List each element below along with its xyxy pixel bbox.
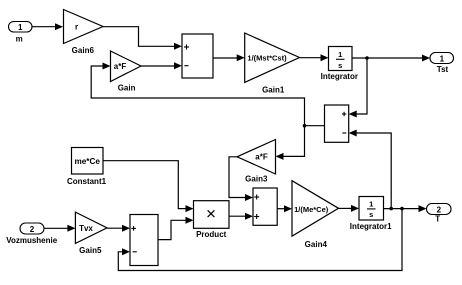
wire inport2 to Gain5 xyxy=(44,225,75,232)
sum block Sum4 xyxy=(130,215,158,266)
integrator Integrator (1/s) xyxy=(321,47,358,82)
svg-text:Gain5: Gain5 xyxy=(79,246,102,255)
svg-text:Gain3: Gain3 xyxy=(245,174,268,183)
svg-text:me*Ce: me*Ce xyxy=(74,157,100,166)
node junction after Integrator xyxy=(365,56,369,60)
svg-text:a*F: a*F xyxy=(255,153,268,162)
wire Gain4 to Integrator1 xyxy=(339,205,360,212)
wire feedback bottom to Sum4 minus xyxy=(118,209,402,271)
outport 2 (T) xyxy=(427,204,452,224)
integrator Integrator1 (1/s) xyxy=(350,197,392,232)
node junction after Integrator1 xyxy=(389,207,393,211)
node junction left of Sum2 xyxy=(303,124,307,128)
wire Sum2 output to junction xyxy=(305,125,325,127)
inport 1 (m) xyxy=(9,22,33,44)
wire Sum3 to Gain4 xyxy=(277,205,292,212)
wire junction up to Sum2 minus xyxy=(349,130,392,209)
wire Sum1 to Gain1 xyxy=(213,54,245,61)
inport 2 (Vozmushenie) xyxy=(6,223,58,245)
svg-text:r: r xyxy=(75,23,78,32)
wire junction down to Gain3 input xyxy=(276,126,305,160)
wire Gain3 output to Sum3 plus top xyxy=(229,157,253,201)
svg-text:Gain1: Gain1 xyxy=(262,85,285,94)
svg-text:1: 1 xyxy=(369,199,373,208)
svg-text:a*F: a*F xyxy=(114,62,127,71)
outport 1 (Tst) xyxy=(430,53,454,75)
gain Gain3 (a*F, points left) xyxy=(237,140,276,184)
node junction before outport T xyxy=(400,207,404,211)
svg-text:1: 1 xyxy=(18,23,23,32)
svg-text:s: s xyxy=(369,210,373,219)
svg-text:2: 2 xyxy=(30,225,35,234)
svg-text:1/(Me*Ce): 1/(Me*Ce) xyxy=(294,205,329,214)
wire Integrator to outport Tst xyxy=(352,55,430,62)
svg-text:T: T xyxy=(435,215,440,224)
svg-text:Tvx: Tvx xyxy=(79,224,93,233)
wire Product to Sum3 plus bottom xyxy=(229,213,253,220)
wire feedback into Gain input xyxy=(91,63,304,126)
sum block Sum2 xyxy=(325,105,349,142)
wire junction down to Sum2 plus xyxy=(349,58,367,118)
gain Gain6 xyxy=(64,10,104,56)
gain Gain1 (1/(Mst*Cst)) xyxy=(245,33,300,94)
gain Gain5 (Tvx) xyxy=(75,212,107,255)
svg-text:Tst: Tst xyxy=(437,65,449,74)
svg-text:Vozmushenie: Vozmushenie xyxy=(6,236,58,245)
wire inport1 to Gain6 xyxy=(32,23,63,30)
wire Constant1 to Product input 1 xyxy=(103,161,194,212)
wire Gain to Sum1 minus xyxy=(141,62,182,69)
gain Gain (a*F) xyxy=(111,51,142,93)
wire Gain1 to Integrator xyxy=(300,54,329,61)
wire Integrator1 to outport T xyxy=(384,205,427,212)
svg-text:Constant1: Constant1 xyxy=(67,177,107,186)
wire Gain5 to Sum4 plus xyxy=(107,225,130,232)
svg-text:1/(Mst*Cst): 1/(Mst*Cst) xyxy=(247,54,287,63)
svg-text:Integrator: Integrator xyxy=(321,72,358,81)
gain Gain4 (1/(Me*Ce)) xyxy=(292,181,339,249)
svg-text:Integrator1: Integrator1 xyxy=(350,222,392,231)
svg-text:Gain: Gain xyxy=(118,84,136,93)
svg-text:Gain6: Gain6 xyxy=(72,46,95,55)
wire Sum4 to Product input 2 xyxy=(158,217,194,240)
svg-text:1: 1 xyxy=(440,55,445,64)
wire Gain6 to Sum1 plus xyxy=(103,27,182,50)
product Product xyxy=(194,201,230,240)
sum block Sum1 xyxy=(182,34,213,78)
svg-text:2: 2 xyxy=(437,206,442,215)
svg-text:Gain4: Gain4 xyxy=(305,240,328,249)
svg-text:m: m xyxy=(16,35,23,44)
svg-text:1: 1 xyxy=(338,50,342,59)
sum block Sum3 xyxy=(253,188,277,225)
constant Constant1 (me*Ce) xyxy=(67,148,107,186)
svg-text:Product: Product xyxy=(196,230,227,239)
svg-text:s: s xyxy=(338,61,342,70)
